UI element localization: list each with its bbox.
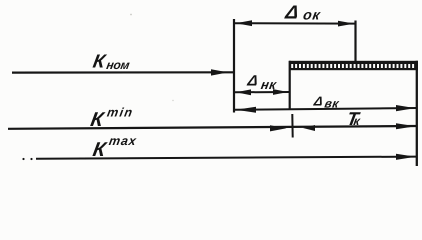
arrowhead K_max (points right) xyxy=(396,154,416,160)
svg-text:ок: ок xyxy=(302,7,322,23)
label K_nom xyxy=(91,52,132,73)
arrowhead K_min (points right) xyxy=(270,125,287,131)
arrowhead delta_ok right (points right) xyxy=(338,21,354,27)
arrowhead delta_vk left (points left) xyxy=(236,107,256,113)
wire K_max line xyxy=(36,157,417,159)
arrowhead delta_nk right (points right) xyxy=(273,89,288,95)
svg-text:max: max xyxy=(108,134,138,148)
scan speck xyxy=(172,100,173,101)
dimension delta_vk line xyxy=(234,108,417,110)
arrowhead delta_nk left (points left) xyxy=(236,89,251,95)
arrowhead delta_vk right (points right) xyxy=(396,105,415,111)
dimension delta_nk line xyxy=(234,91,290,93)
tick mark at K_min boundary xyxy=(291,114,293,138)
leader dots of K_max line xyxy=(22,158,24,160)
svg-text:ном: ном xyxy=(105,58,131,72)
dimension delta_ok line xyxy=(234,22,356,24)
label K_min xyxy=(89,106,135,131)
scan speck xyxy=(130,14,132,16)
label K_max xyxy=(91,134,138,161)
svg-text:вк: вк xyxy=(324,96,341,110)
label delta_ok xyxy=(283,3,323,24)
tolerance zone hatched band xyxy=(289,61,418,70)
svg-text:min: min xyxy=(106,106,135,120)
arrowhead T_k right (points right) xyxy=(396,123,416,129)
arrowhead T_k left (points left) xyxy=(303,125,315,131)
arrowhead on K_nom (points right) xyxy=(211,69,228,75)
wire K_nom line xyxy=(12,71,234,73)
label T_k xyxy=(345,108,363,129)
box left edge xyxy=(289,61,291,110)
right vertical boundary line xyxy=(416,61,418,166)
extension line: left vertical at x=234 xyxy=(233,19,235,113)
extension line: right vertical of delta_ok at x=355.5 xyxy=(354,21,356,63)
wire K_min / T_k line xyxy=(8,126,417,129)
arrowhead delta_ok left (points left) xyxy=(236,20,252,26)
label delta_vk xyxy=(312,94,342,111)
label delta_nk xyxy=(245,72,280,91)
